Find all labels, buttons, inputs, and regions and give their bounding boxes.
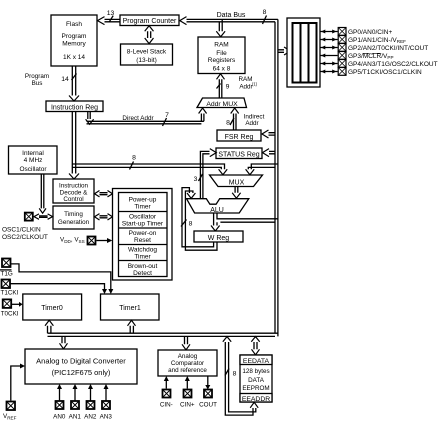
GPIO pin row GP5 [320,68,422,77]
svg-text:Program: Program [62,33,87,40]
AN2 pin [87,401,95,409]
wire bus to Timer0 [45,320,53,333]
svg-text:OSC2/CLKOUT: OSC2/CLKOUT [2,234,48,241]
wire OSC pin to timing generation (bidirectional) [34,214,53,219]
timing generation box [53,206,94,229]
wire AN1 to ADC [73,384,78,401]
STATUS reg box [216,148,262,159]
wire instruction decode to reset block (bidirectional) [95,191,113,197]
CIN+ pin [180,390,195,409]
svg-text:Bus: Bus [32,80,43,87]
W reg box [194,231,243,242]
svg-text:Control: Control [63,196,83,203]
AN3 pin [102,401,110,409]
svg-text:EEDATA: EEDATA [243,358,270,365]
svg-text:Oscillator: Oscillator [19,166,47,173]
wire addr mux to RAM (9-bit) [217,74,230,98]
wire W reg feedback loop to ALU (8) [181,188,217,251]
svg-text:Brown-out: Brown-out [128,263,158,270]
svg-text:Program: Program [25,73,49,80]
wire T0CKI to Timer0 [12,302,23,307]
ALU [187,199,249,214]
Timer0 box [23,294,82,320]
svg-text:Addr: Addr [245,120,258,127]
internal 4 MHz oscillator box [9,146,58,174]
CIN- pin [160,390,173,409]
svg-text:Oscillator: Oscillator [129,214,157,221]
svg-text:3: 3 [194,176,198,183]
wire AN3 to ADC [104,384,109,401]
svg-text:OSC1/CLKIN: OSC1/CLKIN [2,227,41,234]
svg-text:Program Counter: Program Counter [123,18,177,25]
wire Vdd pin to reset block [97,238,113,243]
svg-text:EEPROM: EEPROM [242,385,269,392]
svg-text:Instruction Reg: Instruction Reg [51,105,98,112]
svg-text:DATA: DATA [248,377,265,384]
svg-text:8: 8 [263,9,267,16]
svg-text:T0CKI: T0CKI [1,310,19,317]
svg-text:and reference: and reference [168,367,207,374]
svg-text:CIN+: CIN+ [180,402,195,409]
flash program memory box [51,15,97,66]
GPIO pin row GP3 [320,52,394,61]
wire PC to flash (13-bit bus) [98,10,121,25]
svg-text:Addr: Addr [239,84,252,91]
svg-text:128 bytes: 128 bytes [242,368,269,375]
wire bus to EEADDR (8, loop) [223,337,258,416]
Timer1 box [101,294,160,320]
AN1 pin [71,401,79,409]
svg-text:Addr MUX: Addr MUX [206,101,238,108]
wire direct addr from instruction reg [86,108,207,126]
svg-text:8: 8 [226,120,230,127]
T1G pin [0,259,13,278]
svg-text:GP2/AN2/T0CKI/INT/COUT: GP2/AN2/T0CKI/INT/COUT [348,45,428,52]
wire CIN+ to comparator [185,376,190,389]
svg-text:GP5/T1CKI/OSC1/CLKIN: GP5/T1CKI/OSC1/CLKIN [348,69,422,76]
wire AN0 to ADC [57,384,62,401]
wire T1G to Timer1 [11,264,113,294]
reset block outer box [113,189,173,281]
svg-text:Timing: Timing [64,211,83,218]
svg-text:Power-on: Power-on [129,230,157,237]
svg-text:Reset: Reset [134,237,151,244]
data bus (top) [180,9,278,25]
svg-text:8: 8 [233,371,237,378]
svg-text:W Reg: W Reg [208,235,230,242]
svg-text:AN3: AN3 [100,414,113,421]
svg-text:Watchdog: Watchdog [128,247,157,254]
wire internal oscillator down to timing generation [39,174,46,213]
svg-text:7: 7 [165,112,169,119]
svg-text:AN2: AN2 [84,414,97,421]
Vdd Vss pin [88,237,96,245]
svg-text:FSR Reg: FSR Reg [225,134,254,141]
svg-text:File: File [216,50,227,57]
svg-text:Memory: Memory [62,41,86,48]
svg-text:Instruction: Instruction [59,183,89,190]
svg-text:Timer: Timer [134,254,151,261]
reset block inner stack [119,193,168,277]
svg-text:Direct Addr: Direct Addr [122,115,153,122]
wire bus to EEDATA (bidirectional) [251,337,259,355]
svg-text:64 x 8: 64 x 8 [213,66,231,73]
bottom horizontal bus [48,333,278,336]
wire ALU to STATUS reg (3 flags) [194,149,217,199]
GPIO pin row GP2 [320,44,428,53]
GPIO port inner block [293,23,317,83]
wire AN2 to ADC [88,384,93,401]
right main vertical bus [275,19,278,336]
svg-text:COUT: COUT [199,402,217,409]
oscillator start-up timer cell [122,214,164,228]
wire CIN- to comparator [164,376,169,389]
svg-text:Start-up Timer: Start-up Timer [122,221,164,228]
svg-text:(1): (1) [252,82,258,87]
svg-text:1K x 14: 1K x 14 [63,54,85,61]
svg-text:Timer0: Timer0 [41,305,63,312]
wire bus to STATUS reg [263,149,276,157]
GPIO pin row GP4 [320,60,438,69]
svg-text:MUX: MUX [229,179,245,186]
svg-text:GP4/AN3/T1G/OSC2/CLKOUT: GP4/AN3/T1G/OSC2/CLKOUT [348,61,438,68]
GPIO pin row GP0 [320,28,392,37]
svg-text:Registers: Registers [208,57,236,64]
svg-text:Timer1: Timer1 [119,305,141,312]
svg-text:Timer: Timer [134,204,151,211]
wire T1CKI to Timer1 [11,284,108,294]
AN0 pin [56,401,64,409]
instruction reg box [46,101,103,112]
wire comparator to COUT [205,376,210,390]
svg-text:Detect: Detect [133,270,152,277]
wire PC to stack (bidirectional) [145,26,154,44]
wire bus to GPIO port [278,47,291,55]
Vref pin [3,402,17,421]
wire data bus drop to RAM [216,19,225,36]
svg-text:(PIC12F675 only): (PIC12F675 only) [52,368,111,377]
watchdog timer cell [128,247,157,261]
svg-text:Analog to Digital Converter: Analog to Digital Converter [36,357,126,366]
svg-text:Power-up: Power-up [129,197,157,204]
wire MUX to ALU [232,187,240,199]
label RAM Addr(1) [239,76,258,91]
addr mux trapezoid [197,98,247,108]
power-on reset cell [129,230,157,244]
wire FSR to addr mux (indirect addr, 8) [226,108,264,130]
wire bus to Timer1 [128,320,136,333]
svg-text:13: 13 [107,10,115,17]
OSC1/OSC2 pin [25,213,33,221]
wire bus down to comparator [182,336,190,349]
FSR reg box [217,130,261,141]
svg-text:T1CKI: T1CKI [1,290,19,297]
brown-out detect cell [128,263,158,277]
wire bus to FSR reg [262,130,275,138]
svg-text:Data Bus: Data Bus [217,12,246,19]
GPIO pin row GP1 [320,36,406,45]
svg-text:14: 14 [61,76,69,83]
COUT pin [199,390,217,409]
svg-text:Flash: Flash [66,21,82,28]
svg-text:GP3/MCLR/VPP: GP3/MCLR/VPP [348,53,394,60]
svg-text:STATUS Reg: STATUS Reg [218,152,259,159]
wire bus down to ADC [60,336,68,348]
power-up timer cell [129,197,157,211]
svg-text:8: 8 [189,221,193,228]
svg-text:Internal: Internal [22,150,44,157]
svg-text:8-Level Stack: 8-Level Stack [127,49,167,56]
wire flash to instruction reg (14, program bus) [25,66,79,101]
svg-text:(13-bit): (13-bit) [136,57,157,64]
label AN0 AN1 AN2 AN3 [53,414,112,421]
analog comparator box [158,350,217,376]
svg-text:GP0/AN0/CIN+: GP0/AN0/CIN+ [348,29,392,36]
svg-text:Comparator: Comparator [171,360,204,367]
svg-text:AN0: AN0 [53,414,66,421]
svg-text:4 MHz: 4 MHz [24,157,43,164]
program counter box [120,15,179,26]
wire instruction reg to decode [69,112,79,180]
EEPROM block [240,355,272,403]
svg-text:T1G: T1G [1,271,13,278]
instruction decode and control box [53,179,94,203]
svg-text:9: 9 [226,84,230,91]
8-bit bus right segment from data bus to MUX [246,164,278,175]
svg-text:CIN-: CIN- [160,402,173,409]
svg-text:Analog: Analog [178,353,198,360]
T0CKI pin [1,299,19,317]
wire Vref to ADC [11,364,25,401]
svg-text:Generation: Generation [58,219,90,226]
svg-text:8: 8 [132,155,136,162]
RAM file registers box [198,37,245,74]
svg-text:EEADDR: EEADDR [242,396,270,403]
svg-text:RAM: RAM [239,76,253,83]
label OSC1/CLKIN OSC2/CLKOUT [2,227,48,241]
wire ALU to W reg and to data bus [211,213,278,231]
GPIO port outer box [287,18,320,87]
svg-text:RAM: RAM [214,42,228,49]
8-level stack box [121,44,173,65]
svg-text:ALU: ALU [210,207,224,214]
T1CKI pin [1,280,19,297]
Vdd Vss label [60,237,85,244]
8-bit bus left segment to MUX [72,155,227,175]
MUX trapezoid [210,175,263,187]
ADC box [25,349,137,384]
svg-text:AN1: AN1 [69,414,82,421]
wire timing generation to reset block (bidirectional) [95,214,113,220]
